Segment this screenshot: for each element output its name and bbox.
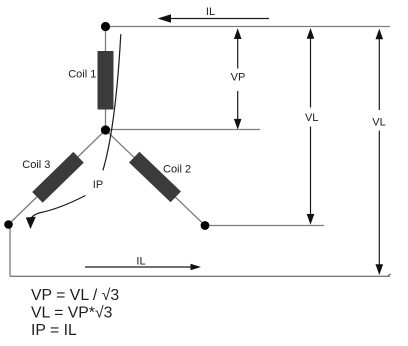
svg-text:Coil 2: Coil 2 [163, 164, 191, 176]
svg-text:VP: VP [231, 72, 246, 84]
svg-text:IL: IL [136, 256, 145, 268]
svg-text:VL = VP*√3: VL = VP*√3 [31, 305, 113, 322]
svg-text:IP: IP [93, 179, 103, 191]
svg-text:Coil 1: Coil 1 [68, 69, 96, 81]
svg-text:VL: VL [372, 117, 385, 129]
svg-text:IP = IL: IP = IL [31, 322, 77, 339]
svg-text:IL: IL [206, 6, 215, 18]
svg-text:VP = VL / √3: VP = VL / √3 [31, 287, 119, 304]
svg-text:VL: VL [305, 112, 318, 124]
svg-text:Coil 3: Coil 3 [22, 159, 50, 171]
